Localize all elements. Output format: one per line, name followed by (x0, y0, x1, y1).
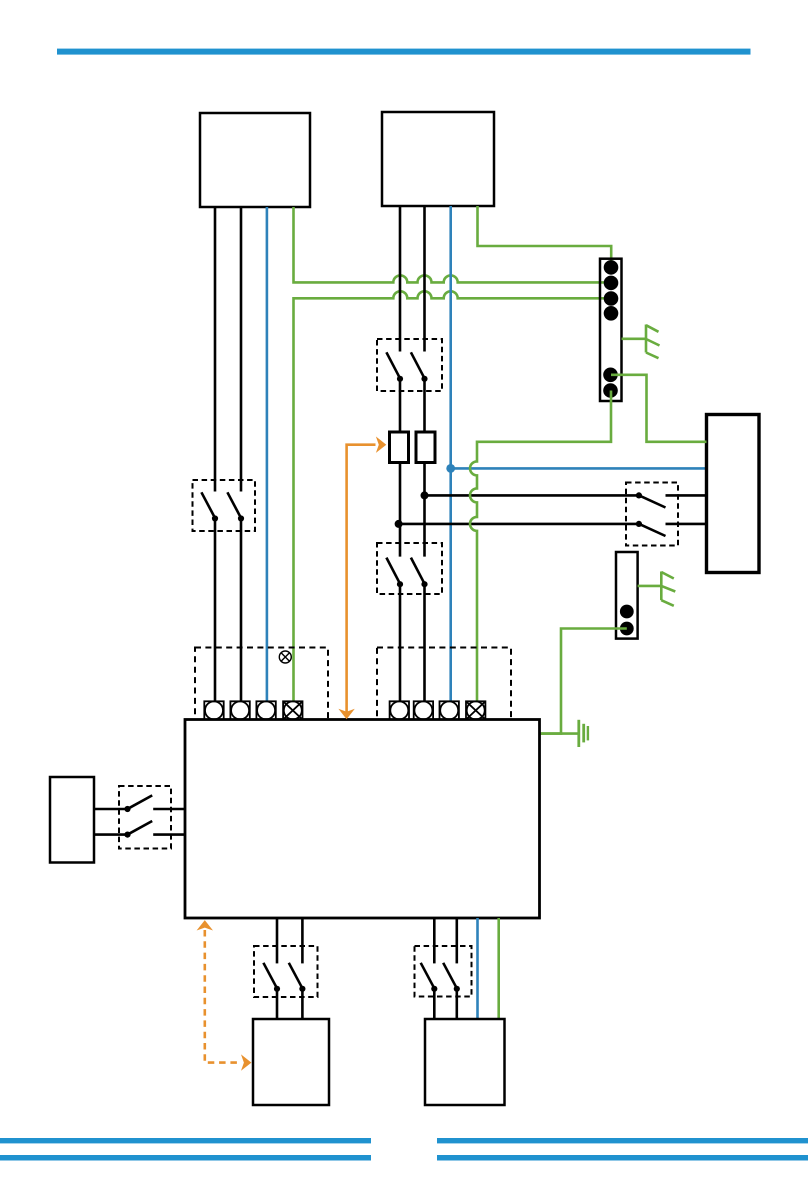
wire load2 conductor 1 (lower) (433, 989, 436, 1019)
switch blade S2a (386, 352, 400, 378)
ground chassis symbol 1 (622, 325, 660, 359)
wire load2 conductor 2 (lower) (455, 989, 458, 1019)
wire PV2 blue conductor (449, 206, 452, 702)
wire PV2 conductor 2 (below fuse) (423, 464, 426, 557)
switch blade S6a (263, 963, 277, 989)
wire load1 conductor 1 (lower) (276, 989, 279, 1019)
switch blade S4a (128, 795, 152, 808)
switch blade S4b (128, 821, 152, 834)
wire PV1 blue conductor (266, 207, 269, 702)
switch blade S5b (636, 521, 642, 527)
wire battery line 1 (94, 808, 128, 811)
switch blade S6b (289, 963, 303, 989)
wire PV2 conductor 1 (fuse feed) (399, 379, 402, 431)
breaker box battery switch (dashed) (119, 786, 171, 849)
switch blade S1b (227, 492, 241, 518)
wire PV1 green conductor to bus bar (with hops) (294, 207, 612, 282)
breaker box AC switch (dashed) (626, 483, 678, 546)
wire PV1 conductor 2 (lower segment) (240, 519, 243, 702)
grid meter box (707, 415, 760, 573)
wire PV1 conductor 1 (lower segment) (214, 519, 217, 702)
inverter terminal block group 2 (390, 701, 486, 719)
PV array box 2 (382, 112, 494, 206)
wire PV2 conductor 2 (to terminal) (423, 584, 426, 701)
PV array box 1 (200, 113, 310, 207)
orange arrow to fuses (347, 445, 376, 715)
dashed terminal enclosure 1 (195, 648, 328, 720)
wire green L-path bus bar to inverter PE terminal (with hops) (294, 291, 612, 701)
load box 1 (253, 1019, 329, 1105)
wire green bus bar to meter box (611, 375, 707, 442)
switch blade S7b (443, 963, 457, 989)
wire PV1 conductor 1 (upper segment) (214, 207, 217, 492)
wire load2 green conductor (497, 918, 500, 1019)
battery box (50, 777, 94, 863)
dashed terminal enclosure 2 (377, 648, 511, 720)
wire PV2 conductor 1 (to terminal) (399, 584, 402, 701)
page footer bar right lower (437, 1155, 808, 1161)
inverter terminal block group 1 (204, 701, 302, 719)
bus bar 1 green feeds (604, 260, 619, 275)
ground earth symbol (inverter PE) (579, 720, 588, 747)
fuse F2 (416, 432, 435, 463)
wire PV2 conductor 1 (below fuse) (399, 464, 402, 557)
inverter main box (185, 720, 540, 919)
switch blade S1a (201, 492, 215, 518)
wire PV1 conductor 2 (upper segment) (240, 207, 243, 492)
breaker box load2 switch (dashed) (415, 946, 472, 997)
wire green bus bar 2 to inverter ground (540, 629, 627, 734)
terminal bus bar 1 (600, 259, 622, 401)
load box 2 (425, 1019, 505, 1105)
wire PV2 conductor 1 (upper segment) (399, 206, 402, 352)
junction node AC2 (395, 520, 403, 528)
wire load2 conductor 1 (upper) (433, 918, 436, 963)
wire PV2 conductor 2 (upper segment) (423, 206, 426, 352)
switch blade S7a (421, 963, 435, 989)
fuse F1 (390, 432, 409, 463)
breaker box load1 switch (dashed) (254, 946, 318, 997)
breaker box DC switch 2 (dashed) (377, 339, 442, 391)
wire PV2 conductor 2 (fuse feed) (423, 379, 426, 431)
wire black AC line 1 (junction to switch) (425, 494, 639, 497)
grid AC blue line to meter box (451, 467, 707, 470)
page footer bar left lower (0, 1155, 371, 1161)
wire battery line 2 (94, 833, 128, 836)
switch blade S3a (386, 558, 400, 584)
junction blue node (446, 464, 455, 473)
orange dashed arrow to load box (205, 930, 241, 1063)
switch blade S3b (411, 558, 425, 584)
wire green inverter ground stub (540, 732, 579, 735)
wire green bus bar to inverter PE (with hops) (470, 391, 611, 702)
wire load1 conductor 1 (upper) (276, 918, 279, 963)
switch blade S2b (411, 352, 425, 378)
breaker box DC switch 1 (dashed) (193, 480, 256, 531)
wire load2 conductor 2 (upper) (455, 918, 458, 963)
page header bar (57, 49, 751, 55)
crossed-circle mark (279, 651, 291, 663)
page footer bar left upper (0, 1138, 371, 1143)
switch blade S5a (636, 492, 642, 498)
wire load2 blue conductor (476, 918, 479, 1019)
breaker box DC switch 3 (dashed) (377, 543, 442, 594)
page footer bar right upper (437, 1138, 808, 1143)
wire PV2 green conductor to bus bar top (478, 206, 612, 267)
ground chassis symbol 2 (638, 572, 676, 606)
terminal bus bar 2 (616, 552, 638, 639)
junction node AC1 (421, 491, 429, 499)
wire black AC line 2 (junction to switch) (399, 523, 639, 526)
wire load1 conductor 2 (upper) (301, 918, 304, 963)
wire load1 conductor 2 (lower) (301, 989, 304, 1019)
